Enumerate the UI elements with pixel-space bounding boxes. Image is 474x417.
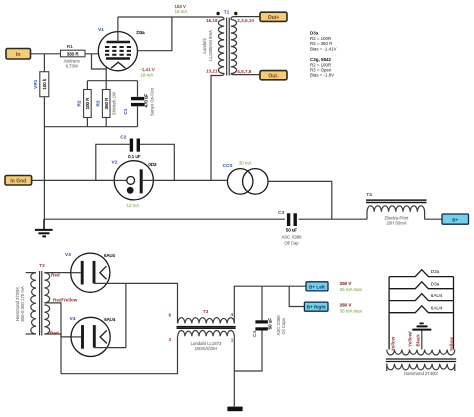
svg-text:13,21: 13,21 xyxy=(206,68,218,73)
wire R3 bottom xyxy=(105,118,107,127)
node B+ Left box xyxy=(306,282,328,291)
node In box xyxy=(6,49,31,60)
svg-text:4: 4 xyxy=(231,312,234,317)
wire ground bus xyxy=(44,218,285,220)
wire C3 to T4 xyxy=(299,218,368,220)
wire cathode bus bottom xyxy=(44,126,137,128)
filament rung 6AU4 2 xyxy=(389,306,453,313)
svg-text:C1: C1 xyxy=(123,108,129,114)
ground symbol xyxy=(35,219,53,236)
svg-text:T2: T2 xyxy=(39,263,45,269)
node Out- box xyxy=(260,71,287,80)
svg-text:2,3,6,10: 2,3,6,10 xyxy=(237,18,254,23)
svg-text:250 V: 250 V xyxy=(340,281,352,286)
svg-text:D3a: D3a xyxy=(137,30,146,35)
wire cathode lead down xyxy=(105,59,107,81)
transformer T3 xyxy=(168,309,235,351)
svg-text:Red: Red xyxy=(51,273,60,278)
svg-text:Sanyo Os-Con: Sanyo Os-Con xyxy=(149,87,154,116)
wire g2 strap xyxy=(137,17,172,51)
resistor VR1 xyxy=(33,72,49,97)
filament rung D3a 1 xyxy=(389,270,453,277)
svg-text:4,5,7,8: 4,5,7,8 xyxy=(237,69,251,74)
svg-text:Shinkoh 1W: Shinkoh 1W xyxy=(112,91,117,115)
note block D3a xyxy=(310,30,337,77)
wire CCS to corner xyxy=(268,181,332,219)
wire plate up xyxy=(117,17,119,42)
svg-text:35 mA max: 35 mA max xyxy=(340,308,363,313)
svg-text:T3: T3 xyxy=(203,309,209,315)
node Out+ box xyxy=(260,12,287,21)
wire C1 top lead xyxy=(137,81,139,97)
svg-text:R1: R1 xyxy=(67,44,73,50)
svg-text:Bias = -1.8V: Bias = -1.8V xyxy=(310,73,334,78)
svg-text:Black: Black xyxy=(415,334,420,347)
svg-text:C2: C2 xyxy=(120,134,126,140)
node In Gnd box xyxy=(5,176,32,186)
svg-text:Out+: Out+ xyxy=(268,15,280,21)
svg-text:D3a: D3a xyxy=(310,30,319,35)
wire R3 lead xyxy=(105,81,107,90)
wire T4 to B+ xyxy=(425,218,442,220)
svg-text:6AU4: 6AU4 xyxy=(431,305,443,310)
wire T2 sec top to V3 xyxy=(44,272,70,274)
capacitor C1 xyxy=(123,87,154,116)
filament rung 6AU4 1 xyxy=(389,294,453,301)
wire T2 center tap xyxy=(44,303,61,374)
svg-text:V4: V4 xyxy=(70,316,76,322)
svg-text:6AU4: 6AU4 xyxy=(431,293,443,298)
svg-text:Out-: Out- xyxy=(268,73,279,79)
svg-text:D3a: D3a xyxy=(431,281,440,286)
svg-text:R2: R2 xyxy=(77,100,83,106)
svg-text:V1: V1 xyxy=(98,27,104,33)
transformer T2 xyxy=(15,263,49,336)
wire T1 primary bottom down xyxy=(211,74,224,181)
resistor R2 xyxy=(77,90,92,118)
wire R1 to V1 grid xyxy=(85,53,105,55)
svg-text:ASC X386: ASC X386 xyxy=(281,234,302,239)
svg-text:360 R: 360 R xyxy=(104,98,109,110)
svg-text:T4: T4 xyxy=(366,192,372,198)
heater ladder rails xyxy=(389,277,453,350)
svg-text:470 uF: 470 uF xyxy=(144,93,149,107)
tube V3 6AU4 xyxy=(65,252,116,292)
wire T1 secondary bottom to Out- xyxy=(231,74,260,75)
svg-text:Oil Cap: Oil Cap xyxy=(284,241,299,246)
svg-text:B+ Right: B+ Right xyxy=(307,305,326,310)
tube V1 D3a xyxy=(98,27,145,71)
svg-text:Bias = -1.41V: Bias = -1.41V xyxy=(310,46,337,51)
svg-text:6: 6 xyxy=(168,313,171,318)
svg-text:18 mA: 18 mA xyxy=(175,9,188,14)
svg-text:20H 50mA: 20H 50mA xyxy=(386,221,406,226)
tube V2 0D3 xyxy=(112,160,158,209)
svg-text:0.73W: 0.73W xyxy=(66,63,79,68)
svg-text:B+ Left: B+ Left xyxy=(309,284,325,289)
capacitor C3 xyxy=(278,210,302,246)
svg-text:C3g, 5842: C3g, 5842 xyxy=(310,57,332,62)
svg-text:18 mA: 18 mA xyxy=(141,72,154,77)
svg-text:1: 1 xyxy=(231,337,234,342)
capacitor C2 xyxy=(96,134,175,180)
svg-text:In Gnd: In Gnd xyxy=(10,178,26,184)
svg-text:C4: C4 xyxy=(252,331,258,337)
svg-text:Yellow/: Yellow/ xyxy=(408,331,413,347)
wire R2 top lead xyxy=(86,81,88,90)
svg-text:Red: Red xyxy=(50,331,59,336)
current source CCS xyxy=(223,161,269,194)
chassis ground center tap xyxy=(412,323,431,349)
transformer Hammond 374BX xyxy=(386,350,456,377)
svg-text:250 V: 250 V xyxy=(340,302,352,307)
wire branch to B+ Right xyxy=(289,286,304,306)
svg-text:Yellow: Yellow xyxy=(391,336,396,351)
svg-text:50 uF: 50 uF xyxy=(268,318,273,330)
capacitor C4 xyxy=(234,286,286,371)
wire V3 cathode out xyxy=(94,283,178,323)
svg-text:0.1 uF: 0.1 uF xyxy=(128,154,141,159)
svg-text:50 uF: 50 uF xyxy=(286,228,298,233)
svg-text:B+: B+ xyxy=(452,218,458,223)
svg-text:330 R: 330 R xyxy=(67,51,79,56)
wire cathode bus top xyxy=(87,80,137,82)
svg-text:Lundahl: Lundahl xyxy=(202,38,207,53)
wire In Gnd to V2 xyxy=(32,179,127,181)
wire T1 secondary top to Out+ xyxy=(231,17,260,20)
svg-text:100 k: 100 k xyxy=(42,78,47,90)
svg-text:Oil Caps: Oil Caps xyxy=(281,318,286,334)
filament rung D3a 2 xyxy=(389,282,453,289)
svg-text:12 mA: 12 mA xyxy=(127,203,140,208)
wire R2 bottom xyxy=(86,118,88,127)
svg-text:V3: V3 xyxy=(65,252,71,258)
svg-text:16,18: 16,18 xyxy=(206,18,218,23)
resistor R1 xyxy=(61,44,86,68)
svg-text:3: 3 xyxy=(168,337,171,342)
svg-text:100 R: 100 R xyxy=(85,98,90,110)
wire T3 pin1 down to ground xyxy=(233,336,235,406)
svg-text:LL1689AM 9mA: LL1689AM 9mA xyxy=(208,30,213,61)
svg-text:VR1: VR1 xyxy=(33,79,39,89)
wire left rail xyxy=(43,54,45,230)
wire C1 bottom xyxy=(137,106,139,126)
node B+ Right box xyxy=(304,302,328,311)
tube V4 6AU4 xyxy=(70,316,116,357)
transformer T1 xyxy=(202,10,254,76)
svg-text:300-0-300 175 mA: 300-0-300 175 mA xyxy=(20,286,25,322)
wire T3 pin4 up to B+ bus xyxy=(234,286,306,323)
svg-text:CCS: CCS xyxy=(223,163,234,169)
wire V4 cathode out xyxy=(94,283,126,347)
svg-text:T1: T1 xyxy=(224,10,230,16)
svg-text:30 mA: 30 mA xyxy=(239,161,252,166)
resistor R3 xyxy=(95,90,116,118)
wire V2 to CCS xyxy=(153,179,227,181)
inductor T4 xyxy=(366,192,427,226)
wire bottom rail xyxy=(61,336,178,374)
svg-text:D3a: D3a xyxy=(431,269,440,274)
svg-text:6AU4: 6AU4 xyxy=(104,253,116,258)
svg-text:V2: V2 xyxy=(112,160,118,166)
svg-text:35 mA max: 35 mA max xyxy=(340,287,363,292)
wire In to R1 xyxy=(31,53,61,55)
svg-text:Red/Yellow: Red/Yellow xyxy=(53,297,78,302)
svg-text:100mA/20H: 100mA/20H xyxy=(195,346,218,351)
svg-text:C3: C3 xyxy=(278,210,284,216)
svg-text:In: In xyxy=(16,52,20,58)
ground bar xyxy=(227,407,242,412)
svg-text:Hammond 374BX: Hammond 374BX xyxy=(404,371,438,376)
svg-text:R3: R3 xyxy=(95,100,101,106)
wire grid hook xyxy=(92,54,107,69)
svg-text:Yellow: Yellow xyxy=(449,337,454,352)
svg-text:6AU4: 6AU4 xyxy=(104,317,116,322)
wire plate to T1 xyxy=(118,17,224,20)
node B+ box xyxy=(442,214,469,224)
wire T2 sec bottom to V4 xyxy=(44,334,71,337)
svg-text:0D3: 0D3 xyxy=(148,162,157,167)
